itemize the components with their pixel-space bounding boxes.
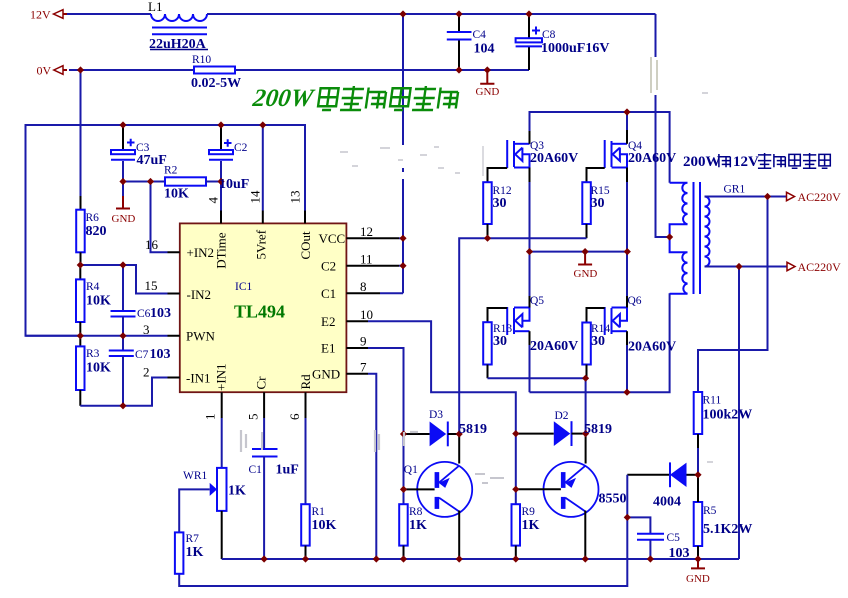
node AC220V upper output arrow [787, 190, 842, 204]
svg-text:5.1K2W: 5.1K2W [703, 522, 752, 537]
wire 12V rail drop to transformer center tap [656, 14, 670, 237]
IC left pin stubs [168, 252, 180, 377]
svg-text:12V: 12V [30, 8, 51, 22]
diode D3 5819 [404, 422, 460, 447]
svg-text:10K: 10K [86, 294, 111, 309]
resistor R8 [399, 504, 408, 559]
svg-text:R6: R6 [86, 212, 100, 224]
resistor R1 [301, 405, 310, 559]
svg-text:13: 13 [288, 191, 303, 204]
svg-text:R1: R1 [312, 506, 326, 518]
svg-text:20A60V: 20A60V [530, 339, 578, 354]
junction dot gate row 1 [484, 235, 491, 242]
resistor R11 [694, 392, 703, 475]
node AC220V lower output arrow [787, 260, 841, 274]
junction dots divider rows [77, 261, 84, 268]
resistor R15 with gate wire [582, 168, 604, 238]
svg-text:47uF: 47uF [137, 153, 167, 168]
svg-text:C5: C5 [667, 532, 681, 544]
svg-text:1: 1 [203, 414, 218, 421]
svg-text:Q1: Q1 [404, 464, 418, 476]
inductor L1 [150, 14, 208, 50]
junction dots GND row [526, 248, 533, 255]
svg-text:2: 2 [143, 365, 150, 380]
junction dots AC220V [764, 193, 771, 200]
svg-text:C1: C1 [249, 464, 263, 476]
svg-text:103: 103 [150, 306, 171, 321]
watermark remnants (light gray) [241, 57, 713, 483]
svg-text:12V: 12V [733, 154, 759, 170]
svg-text:VCC: VCC [319, 231, 346, 246]
wire pin 14 leg [262, 125, 264, 211]
IC bottom pin stubs [222, 392, 306, 405]
svg-text:0V: 0V [37, 64, 52, 78]
capacitor C8 [516, 14, 542, 70]
wire pin 4 leg [220, 182, 222, 211]
wire pin 15 from R6/R4 junction [80, 265, 167, 294]
ground symbol below R5 [686, 559, 710, 585]
wire main ground rail y=559 [222, 558, 739, 560]
junction dots feedback nodes [694, 471, 701, 478]
title 200W dual 12V transformer (navy) [683, 153, 830, 170]
wire pin 10 (E2) to D2 anode column [368, 321, 516, 504]
svg-text:8550: 8550 [599, 492, 627, 507]
wire 12V rail top [67, 13, 656, 15]
wire C3 junction to R2 [123, 181, 165, 183]
wire Q5 top to GND row [529, 252, 531, 296]
transistor Q5 [507, 307, 529, 335]
svg-text:C4: C4 [473, 29, 487, 41]
transformer GR1 primary upper winding [670, 183, 688, 237]
svg-text:Q5: Q5 [530, 295, 544, 307]
junction dots top rail [399, 10, 406, 17]
svg-text:C1: C1 [321, 286, 336, 301]
svg-text:GND: GND [476, 86, 500, 98]
op-amp / PWM IC U1 TL494 body [180, 223, 347, 392]
capacitor C4 [447, 14, 472, 70]
wire pin 16 from R2 junction [151, 182, 168, 253]
svg-text:C2: C2 [321, 259, 336, 274]
transistor Q3 [507, 140, 529, 168]
svg-text:103: 103 [669, 546, 690, 561]
svg-text:Cr: Cr [253, 376, 268, 390]
junction dot drain rail [623, 108, 630, 115]
svg-text:15: 15 [145, 278, 158, 293]
svg-text:1K: 1K [409, 518, 427, 533]
wire secondary bottom to AC220V [705, 266, 788, 268]
svg-text:5Vref: 5Vref [253, 229, 268, 259]
svg-text:9: 9 [360, 334, 367, 349]
svg-text:1uF: 1uF [276, 463, 299, 478]
svg-text:IC1: IC1 [235, 281, 253, 293]
svg-text:30: 30 [493, 196, 507, 211]
svg-text:R2: R2 [164, 165, 178, 177]
title 200W stabilized inverter power supply (green) [250, 85, 459, 112]
svg-text:10K: 10K [86, 361, 111, 376]
transistor Q2 8550 [516, 434, 599, 559]
resistor R5 [694, 475, 703, 559]
svg-text:R5: R5 [703, 505, 717, 517]
svg-text:+IN1: +IN1 [214, 363, 229, 391]
svg-text:GND: GND [112, 213, 136, 225]
junction dots diode columns [582, 430, 589, 437]
svg-text:AC220V: AC220V [798, 190, 842, 204]
IC right pin stubs [346, 238, 399, 373]
wire Q5 bottom to primary-low row [529, 331, 531, 345]
ground symbol below C3 [112, 182, 136, 226]
svg-text:R7: R7 [186, 533, 200, 545]
svg-text:20A60V: 20A60V [628, 151, 676, 166]
svg-text:DTime: DTime [214, 232, 229, 269]
svg-text:104: 104 [474, 42, 495, 57]
svg-text:-IN2: -IN2 [187, 287, 212, 302]
svg-text:20A60V: 20A60V [530, 151, 578, 166]
svg-text:820: 820 [86, 224, 107, 239]
svg-text:WR1: WR1 [183, 470, 208, 482]
svg-text:TL494: TL494 [234, 302, 285, 322]
transformer GR1 secondary winding [705, 197, 710, 267]
wire GND row y=251.6 [530, 251, 628, 253]
wire pin 3 row (PWN) [26, 335, 168, 337]
wire primary-low row y=392 to transformer bottom [530, 293, 670, 392]
node 12V input arrow [54, 10, 68, 19]
wire AC220V lower to ground rail [738, 267, 740, 560]
wire AC220V upper feedback to R11 [698, 197, 768, 393]
svg-text:R3: R3 [86, 348, 100, 360]
svg-text:1K: 1K [228, 484, 246, 499]
svg-text:6: 6 [287, 413, 302, 420]
capacitor C2 [209, 125, 233, 182]
svg-text:5: 5 [246, 414, 261, 421]
svg-text:COut: COut [298, 231, 313, 260]
svg-text:C6: C6 [137, 308, 151, 320]
potentiometer WR1 [179, 405, 226, 559]
capacitor C5 [627, 517, 664, 559]
wire R2 to C2 junction [206, 181, 221, 183]
svg-text:10K: 10K [312, 518, 337, 533]
capacitor C7 [109, 336, 134, 406]
wire Q4 drain to rail [626, 130, 628, 144]
junction dot primary-low row [623, 389, 630, 396]
svg-text:+IN2: +IN2 [187, 245, 215, 260]
svg-text:GND: GND [312, 367, 340, 382]
svg-text:E2: E2 [321, 314, 335, 329]
resistor R14 with gate wire [582, 308, 604, 378]
svg-text:GND: GND [574, 268, 598, 280]
resistor R12 with gate wire [483, 168, 507, 238]
ground symbol on row2 [574, 252, 598, 280]
svg-text:200W: 200W [250, 85, 316, 112]
wire 5Vref rail (y=125) with left leg and pin13 leg [26, 125, 306, 336]
transformer core [694, 182, 701, 294]
svg-text:D2: D2 [555, 410, 569, 422]
svg-text:R10: R10 [192, 54, 211, 66]
diode D2 5819 [516, 421, 586, 446]
transistor Q1 8550 [404, 434, 473, 559]
svg-text:30: 30 [591, 334, 605, 349]
svg-text:20A60V: 20A60V [628, 340, 676, 355]
svg-text:C2: C2 [234, 142, 248, 154]
svg-text:R11: R11 [703, 395, 722, 407]
wire pin 12 to VCC riser [399, 237, 403, 239]
wire pin 9 (E1) down to D3/Q1 [368, 348, 404, 504]
diode D4 4004 [627, 462, 698, 487]
svg-text:103: 103 [150, 347, 171, 362]
svg-text:30: 30 [493, 334, 507, 349]
svg-text:7: 7 [360, 360, 367, 375]
wire pin 8 riser join [380, 292, 403, 294]
wire Q4 source to GND row [626, 168, 628, 183]
svg-text:22uH20A: 22uH20A [149, 37, 207, 52]
resistor R3 [76, 336, 85, 406]
svg-text:D3: D3 [429, 409, 443, 421]
transformer GR1 primary lower winding [670, 237, 688, 294]
resistor R7 [175, 532, 184, 573]
wire pin 11 [399, 265, 403, 267]
svg-text:0.02-5W: 0.02-5W [191, 76, 241, 91]
svg-text:200W: 200W [683, 154, 721, 170]
wire drain rail y=112 to transformer top [530, 112, 670, 183]
wire pin 2 row [80, 378, 167, 406]
svg-text:R8: R8 [409, 506, 423, 518]
svg-text:1K: 1K [186, 545, 204, 560]
wire gate-drive row y=238 and drop to D3 cathode [459, 238, 586, 434]
junction dots ground rail [261, 555, 268, 562]
resistor R9 [512, 504, 521, 559]
wire secondary top to AC220V [705, 196, 787, 198]
resistor R13 with gate wire [483, 308, 507, 378]
transistor Q6 [605, 307, 627, 335]
svg-text:E1: E1 [321, 341, 335, 356]
svg-text:11: 11 [360, 252, 373, 267]
node 0V input arrow [54, 66, 67, 75]
svg-text:C7: C7 [135, 349, 149, 361]
svg-text:R9: R9 [522, 506, 536, 518]
IC top pin stubs [221, 211, 305, 224]
ground symbol at 0V rail [476, 70, 500, 98]
wire pin 7 to ground rail [368, 374, 376, 559]
wire 4004 branch down to C5 node and feedback rail to R7 [179, 475, 627, 586]
junction dots 0V rail [77, 66, 84, 73]
svg-text:100k2W: 100k2W [703, 408, 753, 423]
svg-text:Q6: Q6 [628, 295, 642, 307]
svg-text:L1: L1 [148, 0, 162, 14]
svg-text:10uF: 10uF [219, 177, 249, 192]
capacitor C3 [111, 125, 135, 182]
wire left drop 0V to R6 [80, 70, 82, 196]
svg-text:AC220V: AC220V [798, 260, 842, 274]
transistor Q4 [605, 140, 627, 168]
svg-text:Rd: Rd [298, 374, 313, 390]
svg-text:30: 30 [591, 196, 605, 211]
svg-text:GND: GND [686, 573, 710, 585]
svg-text:5819: 5819 [584, 422, 612, 437]
svg-text:14: 14 [248, 190, 263, 204]
capacitor C6 [111, 265, 136, 336]
resistor R10 [194, 67, 235, 74]
junction dots VCC riser [399, 235, 406, 242]
capacitor C1 [252, 405, 278, 559]
resistor R4 [76, 265, 85, 336]
svg-text:R4: R4 [86, 281, 100, 293]
resistor R6 [76, 210, 85, 265]
junction dot gate row 2 [582, 375, 589, 382]
svg-text:C8: C8 [542, 29, 556, 41]
junction dots 5Vref rail [119, 121, 126, 128]
svg-text:-IN1: -IN1 [186, 371, 211, 386]
svg-text:16: 16 [145, 237, 159, 252]
svg-text:1000uF16V: 1000uF16V [541, 41, 609, 56]
svg-text:PWN: PWN [186, 329, 216, 344]
svg-text:10K: 10K [164, 187, 189, 202]
svg-text:8: 8 [360, 279, 367, 294]
wire gate-drive row y=378 and drop to D2 cathode [488, 378, 586, 433]
svg-text:10: 10 [360, 307, 373, 322]
wire Q6 top to GND row [626, 252, 628, 296]
junction dots R2 row [119, 178, 126, 185]
svg-text:4004: 4004 [653, 495, 681, 510]
resistor R2 [165, 177, 206, 185]
wire Q6 bottom to primary-low row [626, 331, 628, 345]
wire VCC riser x=403 (with watermark gaps) [402, 14, 404, 293]
svg-text:1K: 1K [522, 518, 540, 533]
svg-text:GR1: GR1 [724, 184, 746, 196]
junction dot transformer center tap [666, 233, 673, 240]
svg-text:4: 4 [206, 197, 221, 204]
svg-text:5819: 5819 [459, 422, 487, 437]
wire Q3 source to GND row [529, 168, 531, 183]
wire 0V rail [69, 69, 529, 71]
svg-text:12: 12 [360, 224, 373, 239]
svg-text:3: 3 [143, 322, 150, 337]
